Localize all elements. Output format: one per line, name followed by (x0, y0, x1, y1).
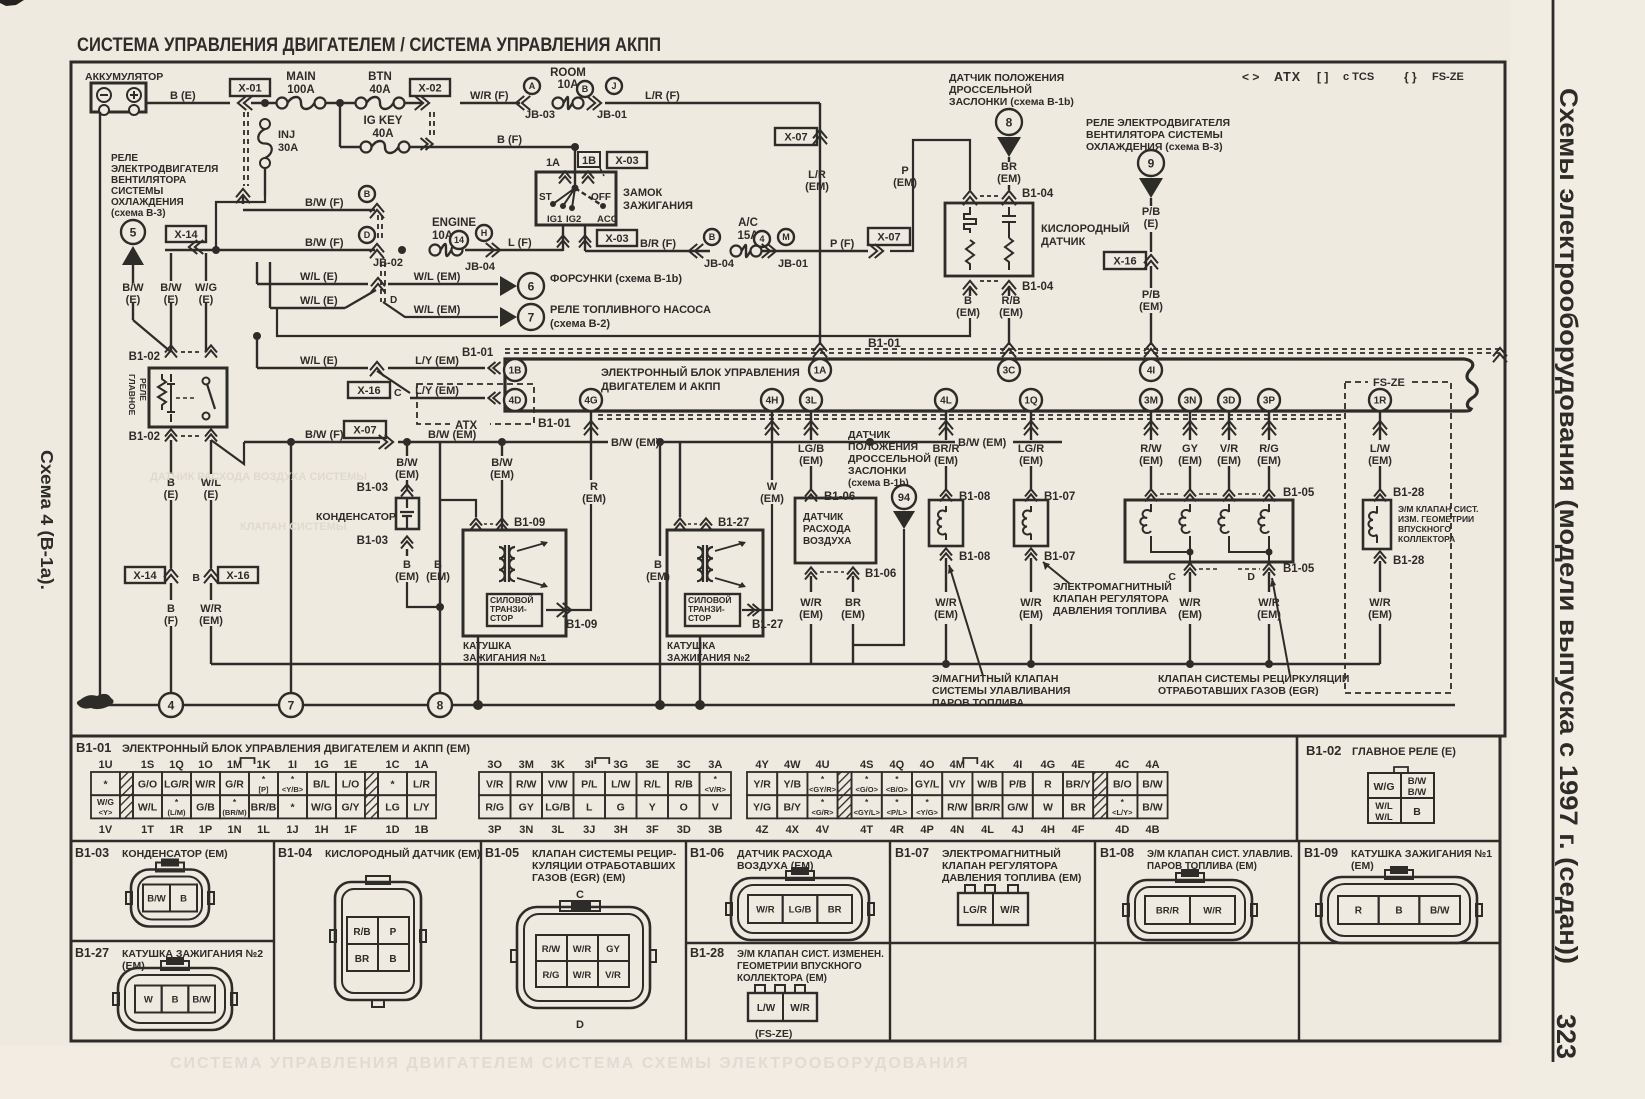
svg-text:P/B: P/B (1142, 289, 1160, 301)
svg-text:4K: 4K (980, 759, 994, 771)
svg-text:L (F): L (F) (508, 237, 532, 249)
svg-text:3P: 3P (488, 824, 501, 836)
svg-text:3H: 3H (614, 824, 628, 836)
svg-text:B: B (654, 559, 662, 571)
svg-text:W/R: W/R (756, 904, 775, 915)
svg-text:1B: 1B (509, 366, 522, 377)
svg-text:W/G: W/G (1374, 781, 1395, 793)
svg-text:40A: 40A (369, 84, 390, 96)
svg-text:V/Y: V/Y (949, 778, 966, 790)
B1-28 connector drawing (755, 985, 765, 993)
svg-text:КОНДЕНСАТОР (ЕМ): КОНДЕНСАТОР (ЕМ) (122, 848, 228, 860)
ECU pin 3N (1179, 389, 1201, 411)
scan corner mark (0, 0, 24, 6)
svg-text:D: D (576, 1019, 584, 1031)
svg-text:B/W: B/W (160, 282, 182, 294)
connector X-01 (230, 79, 270, 96)
svg-text:B1-04: B1-04 (278, 846, 312, 860)
fuse ROOM 10A (524, 78, 540, 94)
svg-text:(ЕМ): (ЕМ) (1351, 860, 1374, 872)
ECU pin 3M (1140, 389, 1162, 411)
svg-text:B/W (F): B/W (F) (305, 197, 344, 209)
svg-text:W/R: W/R (1020, 597, 1041, 609)
svg-text:(F): (F) (164, 615, 178, 627)
connector X-07 c (344, 421, 386, 438)
svg-text:3L: 3L (805, 396, 817, 407)
svg-text:(EM): (EM) (956, 307, 980, 319)
svg-text:<GY/L>: <GY/L> (854, 808, 881, 817)
svg-text:B/W (EM): B/W (EM) (428, 429, 477, 441)
B1-01 dashed boundary top (505, 348, 1505, 350)
wire B/W(F) horizontal (244, 441, 380, 443)
svg-text:КАТУШКА: КАТУШКА (667, 641, 716, 652)
wire R/B(EM) (1008, 286, 1010, 296)
svg-text:КОЛЛЕКТОРА: КОЛЛЕКТОРА (1398, 534, 1455, 544)
svg-text:BR/R: BR/R (975, 802, 1001, 814)
svg-text:GY/L: GY/L (915, 778, 940, 790)
svg-text:4Z: 4Z (756, 824, 769, 836)
svg-text:B1-01: B1-01 (538, 416, 571, 430)
wire L/R(F) (605, 102, 820, 104)
B1-04 connector drawing (335, 882, 421, 1000)
wire B(EM) coil2 area (659, 442, 661, 556)
svg-text:B: B (180, 893, 187, 904)
svg-text:(схема В-2): (схема В-2) (550, 318, 610, 330)
svg-text:РЕЛЕ ТОПЛИВНОГО НАСОСА: РЕЛЕ ТОПЛИВНОГО НАСОСА (550, 304, 711, 316)
ATX dashed box (417, 384, 534, 424)
svg-text:ЭЛЕКТРОДВИГАТЕЛЯ: ЭЛЕКТРОДВИГАТЕЛЯ (111, 164, 218, 175)
svg-text:G/W: G/W (1007, 802, 1028, 814)
svg-text:4P: 4P (920, 824, 933, 836)
ECU pin 4H (761, 389, 783, 411)
right sidebar rule (1552, 0, 1555, 1062)
svg-text:ЗАСЛОНКИ: ЗАСЛОНКИ (848, 465, 906, 477)
svg-text:ATX: ATX (1274, 70, 1301, 84)
svg-text:(E): (E) (164, 489, 179, 501)
svg-text:D: D (1247, 571, 1255, 583)
svg-text:R/L: R/L (644, 778, 662, 790)
svg-text:94: 94 (898, 492, 911, 504)
svg-text:7: 7 (528, 310, 535, 324)
svg-text:ST: ST (539, 192, 552, 203)
node JB-03 (516, 96, 530, 110)
svg-text:ЗАЖИГАНИЯ №1: ЗАЖИГАНИЯ №1 (463, 653, 546, 664)
svg-text:G/Y: G/Y (341, 802, 359, 814)
svg-text:L/R (F): L/R (F) (645, 90, 680, 102)
wire BTN to X-02 (404, 102, 422, 104)
svg-text:7: 7 (288, 698, 295, 712)
svg-text:323: 323 (1551, 1014, 1581, 1059)
svg-text:ГАЗОВ (EGR) (ЕМ): ГАЗОВ (EGR) (ЕМ) (532, 872, 625, 884)
svg-text:C: C (576, 889, 584, 901)
wire battery minus down (99, 112, 101, 703)
svg-text:W/R: W/R (790, 1003, 810, 1014)
svg-text:(схема В-3): (схема В-3) (111, 208, 166, 219)
svg-text:4A: 4A (1145, 759, 1159, 771)
svg-text:(E): (E) (1144, 218, 1159, 230)
wire B(EM) vert (439, 442, 441, 607)
svg-text:B1-04: B1-04 (1022, 281, 1054, 293)
svg-text:ROOM: ROOM (550, 67, 586, 79)
svg-text:4I: 4I (1013, 759, 1022, 771)
svg-text:4W: 4W (784, 759, 801, 771)
svg-text:B1-03: B1-03 (357, 482, 388, 494)
wire W/L(E) row3 (256, 336, 258, 368)
svg-text:1K: 1K (256, 759, 270, 771)
svg-text:100A: 100A (287, 84, 315, 96)
svg-text:B1-06: B1-06 (865, 568, 896, 580)
EGR wires (1150, 411, 1152, 440)
svg-text:ОХЛАЖДЕНИЯ: ОХЛАЖДЕНИЯ (111, 197, 184, 208)
ECU pin 1R (1369, 389, 1391, 411)
svg-text:G/O: G/O (138, 778, 157, 790)
svg-text:1O: 1O (198, 759, 213, 771)
svg-text:W/L (E): W/L (E) (300, 355, 338, 367)
svg-text:G/R: G/R (225, 778, 244, 790)
connector X-14 top (166, 226, 206, 242)
svg-text:X-14: X-14 (174, 229, 198, 241)
svg-text:B: B (434, 559, 442, 571)
svg-text:W: W (767, 481, 778, 493)
svg-text:Э/М КЛАПАН СИСТ. ИЗМЕНЕН.: Э/М КЛАПАН СИСТ. ИЗМЕНЕН. (737, 949, 884, 960)
svg-text:4H: 4H (1041, 824, 1055, 836)
svg-text:B/W (EM): B/W (EM) (958, 437, 1007, 449)
wire to MAIN fuse (251, 102, 278, 104)
svg-text:GY: GY (1182, 443, 1199, 455)
svg-text:Схемы электрооборудования (мод: Схемы электрооборудования (модели выпуск… (1554, 88, 1582, 964)
svg-text:ДАТЧИК РАСХОДА ВОЗДУХА СИСТЕМЫ: ДАТЧИК РАСХОДА ВОЗДУХА СИСТЕМЫ (150, 471, 367, 483)
node JB-01 (587, 96, 601, 110)
battery (91, 83, 146, 112)
svg-text:L/W: L/W (611, 778, 630, 790)
EGR connector bottom (1184, 563, 1196, 575)
svg-text:СТОР: СТОР (688, 613, 712, 623)
svg-text:R/B: R/B (675, 778, 694, 790)
svg-text:W/R: W/R (800, 597, 821, 609)
B1-01 dashed boundary bottom (598, 414, 1345, 416)
svg-text:B/W (F): B/W (F) (305, 429, 344, 441)
svg-text:P: P (390, 927, 397, 938)
svg-text:LG/R: LG/R (1018, 443, 1044, 455)
svg-text:LG/B: LG/B (545, 802, 570, 814)
svg-text:W/R: W/R (1179, 597, 1200, 609)
svg-text:4Q: 4Q (890, 759, 905, 771)
wire B/R(F) (585, 250, 710, 252)
svg-text:R/G: R/G (543, 970, 560, 981)
svg-text:(EM): (EM) (1217, 455, 1241, 467)
connector X-07 b (868, 228, 910, 245)
svg-text:(EM): (EM) (805, 181, 829, 193)
svg-text:B1-03: B1-03 (75, 846, 109, 860)
svg-text:B/W: B/W (1142, 802, 1163, 814)
connector X-03 upper (607, 152, 647, 168)
svg-text:(EM): (EM) (426, 571, 450, 583)
svg-text:R/B: R/B (353, 927, 370, 938)
svg-text:[P]: [P] (259, 785, 270, 794)
FS-ZE dashed box (1345, 382, 1451, 693)
svg-text:LG: LG (385, 802, 400, 814)
svg-text:B: B (1413, 806, 1421, 818)
svg-text:{ }: { } (1404, 70, 1417, 84)
wire MAIN to BTN (325, 102, 356, 104)
svg-text:GY: GY (519, 802, 534, 814)
svg-text:B1-02: B1-02 (1306, 743, 1341, 758)
bus node 8 (428, 693, 452, 717)
svg-text:W/L (EM): W/L (EM) (414, 271, 461, 283)
svg-text:5: 5 (130, 225, 137, 239)
svg-text:ДАТЧИК: ДАТЧИК (803, 512, 844, 523)
svg-text:W/G: W/G (195, 282, 217, 294)
svg-text:D: D (390, 295, 397, 306)
svg-text:(EM): (EM) (395, 571, 419, 583)
B1-01 pin grid 1 (91, 772, 120, 795)
coil2 ground (699, 636, 701, 703)
svg-text:[ ]: [ ] (1317, 70, 1328, 84)
svg-text:IG2: IG2 (566, 214, 581, 225)
svg-text:W/R: W/R (1203, 905, 1222, 916)
svg-text:L/Y (EM): L/Y (EM) (415, 355, 459, 367)
svg-text:4L: 4L (981, 824, 994, 836)
svg-text:ИЗМ. ГЕОМЕТРИИ: ИЗМ. ГЕОМЕТРИИ (1398, 514, 1474, 524)
svg-text:(EM): (EM) (997, 173, 1021, 185)
svg-text:<B/O>: <B/O> (886, 785, 909, 794)
svg-text:A/C: A/C (738, 217, 758, 229)
svg-text:P/B: P/B (1142, 206, 1160, 218)
svg-text:P: P (901, 165, 908, 177)
X-01 dashes (243, 112, 245, 186)
ECU pin 1B (504, 359, 526, 381)
svg-text:B1-02: B1-02 (129, 431, 160, 443)
svg-text:ДРОССЕЛЬНОЙ: ДРОССЕЛЬНОЙ (949, 83, 1032, 96)
svg-text:B1-08: B1-08 (959, 551, 991, 563)
svg-text:(E): (E) (204, 489, 219, 501)
svg-text:4J: 4J (1012, 824, 1024, 836)
svg-text:с TCS: с TCS (1343, 71, 1374, 83)
wire W(EM) 4H to coil2 (771, 411, 773, 480)
svg-text:B/R (F): B/R (F) (640, 238, 676, 250)
svg-text:6: 6 (528, 279, 535, 293)
svg-text:FS-ZE: FS-ZE (1373, 377, 1405, 389)
wire B(E) (146, 102, 230, 104)
svg-text:1G: 1G (314, 759, 329, 771)
wire B/W(F) jumper (165, 249, 375, 251)
svg-text:ПОЛОЖЕНИЯ: ПОЛОЖЕНИЯ (848, 441, 918, 453)
svg-text:B: B (172, 994, 179, 1005)
pressure reg solenoid B1-07 (1014, 500, 1048, 546)
svg-text:B: B (192, 572, 200, 584)
svg-text:Э/М КЛАПАН СИСТ. УЛАВЛИВ.: Э/М КЛАПАН СИСТ. УЛАВЛИВ. (1147, 849, 1293, 860)
switch outputs (562, 225, 564, 251)
svg-text:КЛАПАН РЕГУЛЯТОРА: КЛАПАН РЕГУЛЯТОРА (942, 860, 1058, 872)
svg-text:ЗАЖИГАНИЯ №2: ЗАЖИГАНИЯ №2 (667, 653, 750, 664)
svg-text:R: R (590, 481, 598, 493)
svg-text:ЗАСЛОНКИ (схема В-1b): ЗАСЛОНКИ (схема В-1b) (949, 96, 1074, 108)
svg-text:(EM): (EM) (582, 493, 606, 505)
wire L(F) (465, 249, 563, 251)
svg-text:4: 4 (759, 234, 764, 244)
ECU pin 1Q (1020, 389, 1042, 411)
B1-07 connector drawing (965, 885, 975, 893)
svg-text:ВЕНТИЛЯТОРА СИСТЕМЫ: ВЕНТИЛЯТОРА СИСТЕМЫ (1086, 129, 1223, 141)
svg-text:A: A (529, 81, 536, 91)
svg-text:W/L (E): W/L (E) (300, 271, 338, 283)
svg-text:B: B (1395, 906, 1402, 917)
oxygen sensor connector bottom (963, 281, 977, 295)
svg-text:1F: 1F (344, 824, 357, 836)
svg-text:4: 4 (168, 698, 175, 712)
wire BR(EM) airflow (852, 576, 854, 592)
node 8 throttle (996, 109, 1022, 135)
svg-text:W/R: W/R (935, 597, 956, 609)
svg-text:4F: 4F (1072, 824, 1085, 836)
svg-text:4D: 4D (1115, 824, 1129, 836)
svg-text:(EM): (EM) (199, 615, 223, 627)
svg-text:B1-27: B1-27 (718, 517, 749, 529)
svg-text:4O: 4O (920, 759, 935, 771)
svg-text:JB-01: JB-01 (778, 258, 808, 270)
svg-text:3B: 3B (708, 824, 722, 836)
ignition switch ZAMOK (536, 172, 616, 225)
B1-01 pin grid 4x (747, 772, 777, 795)
svg-text:B/W: B/W (122, 282, 144, 294)
svg-text:B/W: B/W (1408, 787, 1427, 798)
svg-text:B: B (582, 84, 589, 94)
svg-text:ДРОССЕЛЬНОЙ: ДРОССЕЛЬНОЙ (848, 452, 931, 465)
connector crossing dashes (377, 215, 379, 242)
svg-text:СИСТЕМА УПРАВЛЕНИЯ ДВИГАТЕЛЕМ: СИСТЕМА УПРАВЛЕНИЯ ДВИГАТЕЛЕМ СИСТЕМА СХ… (170, 1055, 970, 1072)
svg-text:B1-09: B1-09 (566, 619, 597, 631)
svg-text:ЭЛЕКТРОННЫЙ БЛОК УПРАВЛЕНИЯ ДВ: ЭЛЕКТРОННЫЙ БЛОК УПРАВЛЕНИЯ ДВИГАТЕЛЕМ И… (122, 742, 470, 755)
svg-text:(EM): (EM) (893, 177, 917, 189)
svg-text:X-16: X-16 (1113, 255, 1136, 267)
svg-text:ДАТЧИК: ДАТЧИК (848, 429, 891, 441)
svg-text:4X: 4X (786, 824, 800, 836)
svg-text:1I: 1I (288, 759, 297, 771)
svg-text:1C: 1C (385, 759, 399, 771)
wire W/G(E) (205, 253, 207, 281)
svg-text:LG/B: LG/B (789, 904, 812, 915)
svg-text:1P: 1P (199, 824, 212, 836)
svg-text:B/W: B/W (192, 994, 211, 1005)
svg-text:1B: 1B (582, 155, 596, 167)
svg-text:3F: 3F (646, 824, 659, 836)
wire B(E) relay out (170, 440, 172, 474)
svg-text:BR/R: BR/R (1156, 905, 1179, 916)
svg-text:X-01: X-01 (238, 82, 261, 94)
fuse IG KEY 40A (340, 146, 361, 148)
svg-text:СИСТЕМЫ: СИСТЕМЫ (111, 186, 163, 197)
svg-text:L: L (586, 802, 593, 814)
svg-text:L/O: L/O (342, 778, 360, 790)
svg-text:B: B (403, 559, 411, 571)
connector X-02 (410, 79, 450, 96)
svg-text:B/W: B/W (491, 457, 513, 469)
svg-text:1E: 1E (344, 759, 357, 771)
svg-text:(EM): (EM) (490, 469, 514, 481)
svg-text:B1-07: B1-07 (1044, 551, 1075, 563)
svg-text:(ЕМ): (ЕМ) (122, 960, 145, 972)
svg-text:(EM): (EM) (1178, 455, 1202, 467)
svg-text:4N: 4N (950, 824, 964, 836)
svg-text:Схема 4 (В-1а).: Схема 4 (В-1а). (37, 450, 57, 590)
svg-text:КИСЛОРОДНЫЙ: КИСЛОРОДНЫЙ (1041, 222, 1130, 235)
svg-text:ОТРАБОТАВШИХ ГАЗОВ (EGR): ОТРАБОТАВШИХ ГАЗОВ (EGR) (1158, 685, 1319, 697)
wire B/W(EM) horizontal (398, 441, 1062, 443)
svg-text:<P/L>: <P/L> (887, 808, 908, 817)
svg-text:(EM): (EM) (1178, 609, 1202, 621)
B1-27 connector drawing (118, 968, 232, 1030)
svg-text:B1-04: B1-04 (1022, 188, 1054, 200)
svg-text:R/G: R/G (485, 802, 504, 814)
svg-text:1J: 1J (286, 824, 298, 836)
svg-text:(EM): (EM) (760, 493, 784, 505)
svg-text:4B: 4B (1145, 824, 1159, 836)
connector X-14 bottom (125, 567, 165, 583)
svg-text:(FS-ZE): (FS-ZE) (755, 1028, 792, 1040)
wire B(EM) o2 (969, 286, 971, 296)
EVAP solenoid B1-08 (929, 500, 963, 546)
svg-text:B1-05: B1-05 (1283, 563, 1315, 575)
svg-text:КЛАПАН СИСТЕМЫ РЕЦИР-: КЛАПАН СИСТЕМЫ РЕЦИР- (532, 848, 677, 860)
wire W/R(F) (460, 102, 520, 104)
oxygen sensor connector top (963, 191, 977, 205)
svg-text:ДАТЧИК: ДАТЧИК (1041, 236, 1086, 248)
node JB-04 ac (704, 229, 720, 245)
svg-text:(EM): (EM) (395, 469, 419, 481)
B1-01 pin grid 3x (479, 772, 511, 795)
wire L/R(EM) riser (819, 103, 821, 345)
svg-text:АККУМУЛЯТОР: АККУМУЛЯТОР (85, 71, 163, 83)
ECU pin 1A (809, 359, 831, 381)
svg-text:СТОР: СТОР (490, 613, 514, 623)
svg-text:JB-02: JB-02 (373, 257, 403, 269)
svg-text:Y/R: Y/R (753, 778, 771, 790)
svg-text:КИСЛОРОДНЫЙ ДАТЧИК (ЕМ): КИСЛОРОДНЫЙ ДАТЧИК (ЕМ) (325, 847, 480, 860)
svg-text:B1-28: B1-28 (1393, 487, 1425, 499)
svg-text:(EM): (EM) (1257, 455, 1281, 467)
svg-text:3M: 3M (519, 759, 534, 771)
svg-text:КЛАПАН СИСТЕМЫ РЕЦИРКУЛЯЦИИ: КЛАПАН СИСТЕМЫ РЕЦИРКУЛЯЦИИ (1158, 673, 1349, 685)
bus node 7 (279, 693, 303, 717)
svg-text:<G/O>: <G/O> (855, 785, 878, 794)
svg-text:O: O (680, 802, 688, 814)
svg-text:КОЛЛЕКТОРА (ЕМ): КОЛЛЕКТОРА (ЕМ) (737, 973, 827, 984)
svg-text:ЗАЖИГАНИЯ: ЗАЖИГАНИЯ (623, 200, 693, 212)
svg-text:W/L (EM): W/L (EM) (414, 304, 461, 316)
svg-text:B1-28: B1-28 (1393, 555, 1425, 567)
svg-text:1Q: 1Q (1024, 396, 1038, 407)
wire W/L(E) row1 (256, 262, 258, 284)
ECU pin 4D (504, 389, 526, 411)
svg-text:X-07: X-07 (784, 131, 807, 143)
ECU pin 3P (1258, 389, 1280, 411)
svg-text:4G: 4G (1041, 759, 1056, 771)
B1-08 connector drawing (1128, 880, 1252, 940)
ECU pin 4G (580, 389, 602, 411)
svg-text:INJ: INJ (278, 129, 295, 141)
svg-text:ЭЛЕКТРОМАГНИТНЫЙ: ЭЛЕКТРОМАГНИТНЫЙ (1053, 580, 1172, 593)
svg-text:(EM): (EM) (1019, 609, 1043, 621)
svg-text:1U: 1U (98, 759, 112, 771)
ground bus upper (211, 663, 1380, 665)
svg-text:W/L: W/L (1375, 812, 1393, 823)
svg-text:W: W (144, 994, 153, 1005)
svg-text:40A: 40A (372, 128, 393, 140)
svg-text:BR: BR (828, 904, 842, 915)
svg-text:ДВИГАТЕЛЕМ И АКПП: ДВИГАТЕЛЕМ И АКПП (601, 381, 720, 393)
svg-text:W/R: W/R (195, 778, 216, 790)
svg-text:СИСТЕМА УПРАВЛЕНИЯ ДВИГАТЕЛЕМ: СИСТЕМА УПРАВЛЕНИЯ ДВИГАТЕЛЕМ / СИСТЕМА … (77, 34, 661, 56)
